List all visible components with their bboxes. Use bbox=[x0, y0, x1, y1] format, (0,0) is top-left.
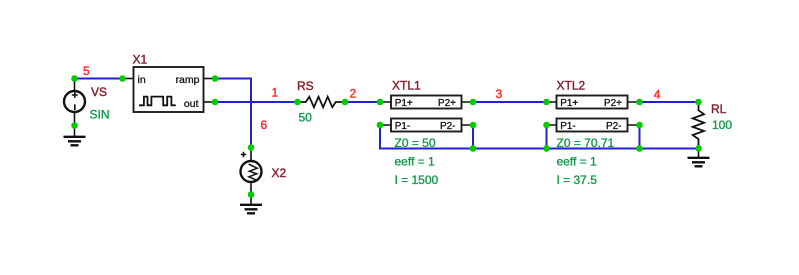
svg-text:XTL2: XTL2 bbox=[557, 79, 586, 93]
svg-text:2: 2 bbox=[350, 87, 357, 101]
svg-text:P1+: P1+ bbox=[395, 98, 413, 109]
svg-text:in: in bbox=[138, 74, 146, 86]
svg-text:X2: X2 bbox=[272, 166, 287, 180]
svg-text:VS: VS bbox=[91, 85, 107, 99]
svg-text:I = 37.5: I = 37.5 bbox=[557, 173, 598, 187]
svg-text:Z0 = 50: Z0 = 50 bbox=[395, 136, 436, 150]
svg-text:eeff = 1: eeff = 1 bbox=[557, 155, 597, 169]
svg-text:RS: RS bbox=[297, 79, 314, 93]
svg-text:P2+: P2+ bbox=[604, 98, 622, 109]
svg-text:1: 1 bbox=[272, 85, 279, 99]
svg-text:P1-: P1- bbox=[395, 121, 411, 132]
svg-text:out: out bbox=[184, 98, 199, 110]
svg-text:100: 100 bbox=[712, 118, 732, 132]
svg-text:eeff = 1: eeff = 1 bbox=[395, 155, 435, 169]
svg-text:6: 6 bbox=[261, 118, 268, 132]
svg-text:XTL1: XTL1 bbox=[392, 79, 421, 93]
svg-text:P2-: P2- bbox=[606, 121, 622, 132]
svg-text:ramp: ramp bbox=[176, 74, 200, 86]
svg-text:P1-: P1- bbox=[560, 121, 576, 132]
svg-text:50: 50 bbox=[299, 111, 313, 125]
svg-text:SIN: SIN bbox=[90, 108, 110, 122]
svg-text:RL: RL bbox=[711, 102, 727, 116]
svg-text:Z0 = 70.71: Z0 = 70.71 bbox=[557, 136, 615, 150]
svg-text:P2-: P2- bbox=[440, 121, 456, 132]
svg-text:X1: X1 bbox=[133, 53, 148, 67]
svg-text:P1+: P1+ bbox=[560, 98, 578, 109]
svg-text:3: 3 bbox=[496, 87, 503, 101]
svg-text:I = 1500: I = 1500 bbox=[395, 173, 439, 187]
svg-text:P2+: P2+ bbox=[438, 98, 456, 109]
svg-text:4: 4 bbox=[654, 87, 661, 101]
svg-text:5: 5 bbox=[83, 64, 90, 78]
